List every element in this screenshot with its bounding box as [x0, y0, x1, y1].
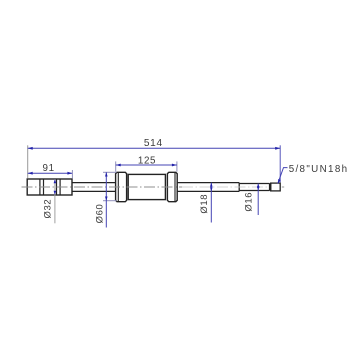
dim 514 arrows [28, 147, 33, 150]
dim 514 line [28, 147, 281, 149]
svg-text:Ø32: Ø32 [43, 199, 54, 219]
dim 514 extension line left [27, 145, 29, 178]
dim Ø16 line [257, 184, 259, 216]
dim Ø60 line [105, 172, 107, 227]
weight right collar [167, 172, 177, 201]
centerline faint right section [182, 186, 269, 188]
dim Ø32 arrows [54, 179, 57, 183]
weight body Ø60 [128, 174, 165, 199]
shaft Ø16 undercut segment [239, 183, 269, 191]
threaded end 5/8"UN [271, 183, 281, 191]
svg-text:Ø16: Ø16 [244, 192, 255, 212]
shaft Ø18 right segment [177, 183, 239, 192]
dim Ø18 line [210, 183, 212, 223]
dim Ø32 line [54, 179, 56, 223]
shaft Ø18 left segment [72, 183, 116, 192]
svg-text:91: 91 [43, 163, 55, 174]
dim Ø60 extension line bottom [103, 200, 117, 202]
dim 514 extension line right [279, 145, 281, 182]
dim 125 line [116, 164, 177, 166]
dim 125 extension line left [115, 161, 117, 171]
leader arrow [278, 179, 281, 184]
dim 91 arrows [28, 172, 33, 175]
dim 125 arrows [116, 164, 121, 167]
svg-text:5/8"UN18h: 5/8"UN18h [289, 164, 349, 175]
centerline stub right of thread [282, 186, 284, 188]
weight left collar [116, 172, 127, 201]
svg-text:Ø60: Ø60 [94, 204, 105, 224]
dim 91 line [28, 172, 73, 174]
dim 91 extension line right [71, 170, 73, 179]
handle body Ø32 [27, 179, 72, 195]
dim 125 extension line right [176, 161, 178, 171]
dim Ø18 arrows [210, 183, 213, 187]
dim Ø60 extension line top [103, 171, 117, 173]
dim Ø16 arrows [257, 184, 260, 188]
leader for thread callout [278, 168, 288, 184]
svg-text:514: 514 [144, 138, 163, 149]
centerline [22, 186, 183, 188]
weight left collar chamfer line [117, 172, 119, 201]
handle groove lines [40, 179, 60, 195]
weight right collar chamfer line [174, 172, 176, 201]
svg-text:125: 125 [138, 155, 156, 166]
svg-text:Ø18: Ø18 [199, 194, 210, 214]
dim Ø60 arrows [105, 172, 108, 176]
